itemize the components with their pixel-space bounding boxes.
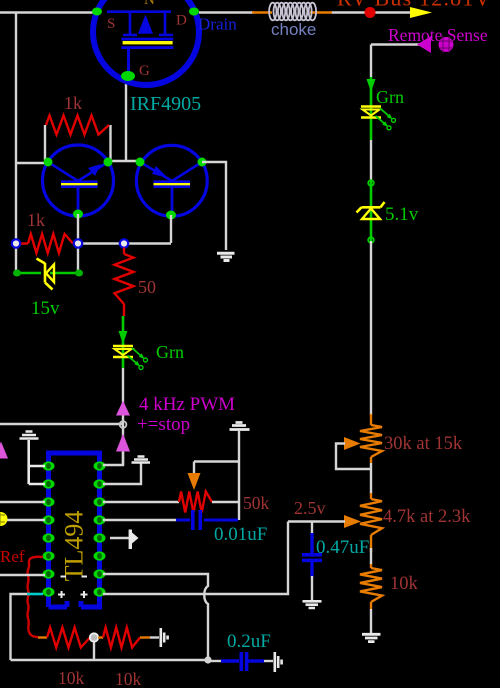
potentiometer 30k leads	[370, 414, 372, 463]
ground sideways 10k-2	[161, 628, 168, 647]
svg-text:15v: 15v	[31, 298, 60, 319]
U1 pin R3	[94, 497, 106, 506]
zener diode 15v	[37, 259, 53, 290]
capacitor 0.47uF	[311, 522, 313, 535]
svg-text:0.01uF: 0.01uF	[214, 524, 267, 545]
transistor Q3 PNP circle	[136, 145, 207, 216]
ground below 10k right	[362, 634, 381, 641]
LED D1 Grn	[113, 345, 133, 348]
node junction A emitter bus	[12, 239, 20, 247]
wire choke to bus junction	[331, 11, 410, 13]
resistor 50k	[179, 492, 212, 513]
wire remote sense horizontal	[371, 43, 430, 45]
svg-text:0.47uF: 0.47uF	[316, 537, 369, 558]
PWM arrow left edge	[0, 442, 8, 459]
potentiometer 30k	[360, 425, 382, 457]
svg-text:Remote Sense: Remote Sense	[388, 25, 488, 45]
resistor 10k bottom-1 leads	[38, 636, 47, 638]
wire pin1R to PWM chain	[103, 452, 123, 465]
svg-text:1k: 1k	[64, 93, 82, 113]
wire green zener section	[370, 181, 373, 241]
LED D1 emission arrows	[128, 348, 144, 365]
svg-text:N: N	[144, 0, 155, 8]
node PWM junction ring	[120, 421, 127, 428]
wire green LED section	[122, 316, 125, 368]
TL494 +/- marks	[61, 576, 88, 578]
svg-text:Ref: Ref	[0, 547, 25, 566]
U1 pin L5	[43, 533, 55, 542]
wire between transistor tops	[106, 160, 141, 162]
wire pin2R + flipped ground	[103, 463, 141, 484]
transistor Q2 NPN circle	[43, 145, 114, 216]
connector ball yellow pin4L	[7, 519, 45, 521]
wire pin8L white + cyan	[11, 594, 31, 660]
wire pin8R to wiper riser	[103, 522, 288, 595]
svg-text:2.5v: 2.5v	[294, 498, 326, 518]
PWM arrow 2	[116, 434, 130, 452]
svg-text:10k: 10k	[390, 574, 419, 594]
U1 pin L6	[43, 551, 55, 560]
wire emitter drops	[78, 214, 171, 243]
resistor 10k bottom-1	[47, 628, 90, 648]
potentiometer 4.7k	[360, 499, 382, 535]
node RV bus junction dot	[365, 7, 376, 18]
wire 30k wiper loop	[336, 444, 371, 470]
pin5R connector arrow	[110, 537, 129, 539]
divider tap ring	[93, 642, 95, 660]
svg-text:choke: choke	[271, 20, 316, 39]
svg-text:D: D	[176, 13, 187, 29]
svg-text:1k: 1k	[27, 210, 45, 230]
resistor 50	[115, 254, 134, 304]
svg-text:Grn: Grn	[376, 87, 404, 107]
wire zener stubs	[16, 243, 78, 272]
node junction B emitter bus	[74, 239, 82, 247]
U1 pin L7	[43, 569, 55, 578]
4.7k wiper arrow	[344, 515, 361, 528]
transistor Q1 IRF4905 MOSFET circle	[93, 0, 199, 85]
wire zener green	[16, 272, 79, 275]
wire Q3 right to ground	[202, 162, 226, 250]
wire MOSFET gate down	[125, 78, 127, 161]
wire left rail vertical	[15, 13, 17, 244]
resistor 1k lower	[28, 234, 73, 253]
wire emitter bus	[78, 242, 171, 244]
resistor 10k right leads	[370, 548, 372, 609]
30k wiper arrow	[344, 437, 361, 450]
PWM arrow 1	[116, 401, 130, 416]
wire top bus left	[0, 11, 97, 13]
LED D2 emission arrows	[376, 108, 392, 125]
U1 pin R1	[94, 461, 106, 470]
inductor choke leads	[252, 11, 332, 14]
wire mid white	[370, 140, 372, 181]
50k wiper arrow	[193, 462, 195, 475]
svg-text:4.7k at 2.3k: 4.7k at 2.3k	[383, 507, 471, 527]
svg-text:S: S	[107, 16, 115, 32]
IRF4905 internal symbol	[107, 12, 173, 35]
svg-text:Grn: Grn	[156, 342, 184, 362]
U1 pin R2	[94, 479, 106, 488]
zener diode 5.1v	[357, 202, 385, 213]
svg-text:5.1v: 5.1v	[385, 204, 419, 225]
U1 pin R4	[94, 515, 106, 524]
MOSFET terminals	[92, 8, 102, 16]
wire green LED2 section	[370, 77, 373, 140]
svg-text:10k: 10k	[115, 669, 142, 688]
resistor 1k top	[46, 116, 109, 135]
capacitor 0.2uF	[208, 660, 222, 662]
wire pin4R + 0.01uF	[103, 519, 176, 521]
wire 10k to ground	[370, 609, 372, 633]
LED D2 Grn	[361, 105, 381, 108]
remote sense ball connector	[439, 37, 454, 52]
wire 50k wiper to ground stem	[194, 460, 239, 462]
wire 30k bottom	[370, 463, 372, 494]
remote sense arrow funnel	[417, 36, 431, 53]
resistor 1k top leads	[45, 125, 111, 160]
inductor choke coil	[269, 3, 276, 21]
wire right bus top	[370, 45, 372, 78]
U1 pin R6	[94, 551, 106, 560]
svg-text:+=stop: +=stop	[137, 414, 190, 435]
capacitor 0.01uF plates	[191, 510, 195, 530]
U1 pin L3	[43, 497, 55, 506]
wire zener to pot	[370, 241, 372, 415]
op-amp U1 TL494 body	[49, 453, 100, 607]
svg-text:G: G	[139, 63, 150, 79]
wire pin3R to 50k	[103, 501, 179, 503]
wire 2.5v to wiper	[288, 520, 345, 522]
svg-text:4 kHz PWM: 4 kHz PWM	[139, 394, 235, 415]
svg-text:IRF4905: IRF4905	[130, 93, 201, 115]
svg-text:0.2uF: 0.2uF	[227, 631, 271, 652]
U1 pin L8	[43, 587, 55, 596]
wire pin7L	[0, 574, 45, 576]
svg-text:50: 50	[138, 277, 156, 297]
ground below Q3	[217, 253, 235, 260]
resistor 10k bottom-2	[98, 636, 103, 638]
wire rail to Q2	[16, 162, 45, 164]
ground below 0.47uF	[303, 601, 322, 608]
node junction C emitter bus	[120, 239, 128, 247]
node junction 0.2uF	[204, 656, 211, 663]
U1 pin R5	[94, 533, 106, 542]
potentiometer 4.7k leads	[370, 493, 372, 548]
U1 pin L2	[43, 479, 55, 488]
U1 pin R8	[94, 587, 106, 596]
wire Ref red squiggle from pin6L	[27, 557, 43, 637]
wire LED to pin1	[122, 368, 124, 465]
resistor 50 leads	[123, 248, 125, 317]
resistor 10k right	[360, 568, 382, 602]
ground sideways 0.2uF	[275, 652, 282, 672]
U1 pin L4	[43, 515, 55, 524]
wire MOSFET drain to choke	[199, 11, 254, 13]
RV bus arrow	[410, 7, 432, 18]
svg-text:TL494: TL494	[60, 511, 89, 582]
resistor 1k lower leads	[16, 242, 78, 244]
svg-text:30k at 15k: 30k at 15k	[384, 434, 463, 454]
svg-text:Drain: Drain	[198, 15, 237, 34]
ground top-left of U1	[20, 432, 39, 439]
green flow arrow	[119, 331, 128, 344]
wire pin3L	[0, 501, 45, 503]
wire pin7R down	[103, 574, 208, 658]
U1 pin L1	[43, 461, 55, 470]
wire PWM horizontal	[0, 423, 123, 425]
flipped ground near 50k	[230, 423, 250, 430]
wire bottom left	[11, 659, 209, 661]
U1 pin R7	[94, 569, 106, 578]
svg-text:10k: 10k	[58, 668, 85, 688]
svg-text:50k: 50k	[243, 493, 270, 513]
